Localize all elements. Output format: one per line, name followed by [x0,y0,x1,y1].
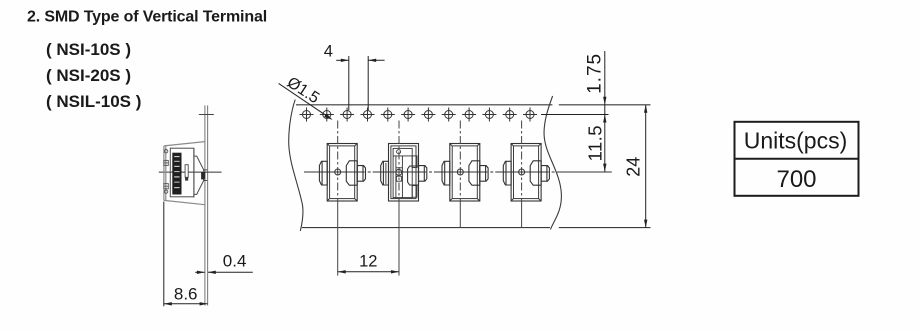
svg-text:8.6: 8.6 [174,285,198,304]
tape top edge [296,104,651,106]
sprocket hole 2 [320,108,334,122]
side view terminal envelope [164,142,205,205]
component C2 (detailed top view) [381,144,427,202]
sprocket hole 6 [401,108,415,122]
svg-text:24: 24 [624,157,644,177]
component C4 (simple top view) [503,144,549,202]
tape right break line [544,96,561,230]
svg-text:11.5: 11.5 [585,125,606,161]
side view contact pad [201,172,205,179]
sprocket hole 11 [503,108,517,122]
sprocket hole 9 [462,108,476,122]
dimension 0.4 (tape thickness) [195,271,253,273]
component C1 (simple top view) [319,144,365,202]
side view tape (vertical double line) [205,105,208,305]
sprocket hole 10 [482,108,496,122]
svg-text:( NSIL-10S ): ( NSIL-10S ) [46,92,141,111]
dimension 24 (tape width) [645,105,647,228]
sprocket hole 5 [381,108,395,122]
side view contact notch [194,149,207,198]
side view centerline [159,171,222,173]
component centerline vertical C4 [521,121,523,228]
side view terminal body box [170,148,194,197]
svg-text:Units(pcs): Units(pcs) [744,128,848,154]
side view sprocket hole tick [199,114,214,116]
svg-text:1.75: 1.75 [585,53,606,94]
side view clip feature circles [164,150,167,194]
dimension 1.75 (edge to holes) [604,51,606,172]
dimension 8.6 (part height) [163,202,165,307]
component centerline vertical C2 [398,121,400,276]
sprocket hole 4 [361,108,375,122]
component C3 (simple top view) [442,144,488,202]
svg-text:Ø1.5: Ø1.5 [284,74,322,107]
leader and label Ø1.5 (hole diameter) [279,83,331,118]
svg-text:2. SMD Type of Vertical Termin: 2. SMD Type of Vertical Terminal [27,9,267,26]
dimension 4 (hole pitch) [336,56,384,110]
holes centerline extension [541,114,609,116]
tape bottom edge [302,227,651,229]
svg-text:( NSI-20S ): ( NSI-20S ) [46,66,131,85]
sprocket hole 12 [523,108,537,122]
dimension 12 (component pitch) [338,271,399,273]
side view slot lower block [185,177,188,180]
svg-text:4: 4 [324,43,333,61]
component centerline vertical C3 [459,121,461,228]
svg-text:12: 12 [359,253,377,271]
sprocket hole 1 [300,108,314,122]
sprocket hole 7 [421,108,435,122]
tape left break line [289,100,303,232]
side view marking strip (dark label) [172,153,181,195]
components horizontal centerline [304,171,612,173]
side view slot [185,165,188,178]
sprocket holes row [300,108,538,122]
component center holes [335,169,525,175]
svg-text:( NSI-10S ): ( NSI-10S ) [46,40,131,59]
side view clip feature notches [164,160,168,188]
svg-text:700: 700 [776,166,816,193]
component centerline vertical C1 [337,121,339,276]
sprocket hole 8 [442,108,456,122]
units table [735,122,859,196]
svg-text:0.4: 0.4 [223,252,247,271]
sprocket hole 3 [340,108,354,122]
